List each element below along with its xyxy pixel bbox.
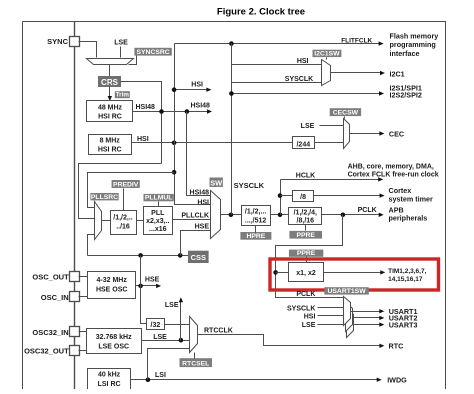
svg-text:HSI RC: HSI RC <box>98 147 122 154</box>
svg-text:USART3: USART3 <box>389 321 418 330</box>
svg-text:PLLCLK: PLLCLK <box>181 213 209 220</box>
svg-text:PLLMUL: PLLMUL <box>145 195 173 202</box>
svg-text:AHB, core, memory, DMA,: AHB, core, memory, DMA, <box>348 163 434 170</box>
svg-text:SYNCSRC: SYNCSRC <box>136 49 169 56</box>
svg-text:PCLK: PCLK <box>358 207 377 214</box>
svg-text:peripherals: peripherals <box>389 214 428 223</box>
svg-text:HSI48: HSI48 <box>190 190 210 197</box>
svg-text:HSE OSC: HSE OSC <box>96 287 128 294</box>
svg-text:/8,/16: /8,/16 <box>297 218 315 225</box>
svg-text:../16: ../16 <box>116 224 130 231</box>
svg-text:/1,/2,..: /1,/2,.. <box>113 215 133 222</box>
svg-text:CEC: CEC <box>389 130 404 139</box>
svg-text:HSI: HSI <box>137 136 149 143</box>
svg-text:/32: /32 <box>151 322 161 329</box>
svg-text:OSC_OUT: OSC_OUT <box>32 272 69 281</box>
svg-text:/1,/2,/4,: /1,/2,/4, <box>294 209 317 216</box>
svg-text:OSC32_IN: OSC32_IN <box>32 328 68 337</box>
svg-text:CSS: CSS <box>191 253 206 262</box>
svg-text:programming: programming <box>390 40 436 49</box>
svg-text:SYSCLK: SYSCLK <box>285 76 313 83</box>
svg-text:I2S2/SPI2: I2S2/SPI2 <box>390 90 422 99</box>
svg-text:LSI RC: LSI RC <box>98 381 121 388</box>
svg-text:HPRE: HPRE <box>246 233 265 240</box>
svg-text:interface: interface <box>390 49 420 58</box>
svg-text:RTCCLK: RTCCLK <box>204 328 233 335</box>
svg-text:Trim: Trim <box>116 92 130 99</box>
svg-text:HSI: HSI <box>297 58 309 65</box>
svg-text:14,15,16,17: 14,15,16,17 <box>388 276 423 283</box>
svg-text:HCLK: HCLK <box>296 172 315 179</box>
svg-text:48 MHz: 48 MHz <box>98 104 123 111</box>
svg-text:HSI: HSI <box>197 199 209 206</box>
svg-text:LSE: LSE <box>301 123 315 130</box>
svg-text:PPRE: PPRE <box>296 232 315 239</box>
svg-text:RTC: RTC <box>389 342 404 351</box>
svg-text:SYSCLK: SYSCLK <box>287 305 315 312</box>
svg-text:LSE: LSE <box>114 40 128 47</box>
svg-text:8 MHz: 8 MHz <box>100 137 121 144</box>
svg-text:SW: SW <box>210 178 222 187</box>
svg-text:HSI48: HSI48 <box>191 102 211 109</box>
svg-text:CECSW: CECSW <box>333 110 359 117</box>
svg-text:/8: /8 <box>300 194 306 201</box>
svg-text:LSE: LSE <box>165 302 179 309</box>
svg-text:SYNC: SYNC <box>47 37 68 46</box>
svg-text:40 kHz: 40 kHz <box>98 372 121 379</box>
svg-text:OSC_IN: OSC_IN <box>41 293 69 302</box>
svg-text:FLITFCLK: FLITFCLK <box>341 37 372 44</box>
svg-text:LSE: LSE <box>153 334 167 341</box>
svg-text:x2,x3,..: x2,x3,.. <box>146 218 169 225</box>
svg-text:...,/512: ...,/512 <box>245 217 267 224</box>
svg-text:PCLK: PCLK <box>296 291 315 298</box>
svg-text:PLLSRC: PLLSRC <box>91 194 118 201</box>
svg-text:HSI: HSI <box>304 314 316 321</box>
svg-text:/244: /244 <box>296 141 310 148</box>
svg-text:system timer: system timer <box>389 194 434 203</box>
svg-text:/1,/2,...: /1,/2,... <box>245 208 266 215</box>
svg-text:TIM1,2,3,6,7,: TIM1,2,3,6,7, <box>388 268 426 275</box>
svg-text:LSI: LSI <box>155 372 166 379</box>
svg-text:IWDG: IWDG <box>387 376 407 385</box>
svg-text:HSI RC: HSI RC <box>98 114 122 121</box>
svg-text:I2C1SW: I2C1SW <box>314 51 340 58</box>
svg-text:Flash memory: Flash memory <box>390 31 439 40</box>
svg-text:CRS: CRS <box>101 78 119 87</box>
svg-text:SYSCLK: SYSCLK <box>234 181 265 190</box>
svg-text:HSI48: HSI48 <box>136 104 156 111</box>
svg-text:x1, x2: x1, x2 <box>296 270 316 277</box>
svg-text:32.768 kHz: 32.768 kHz <box>96 334 132 341</box>
svg-text:PLL: PLL <box>151 210 165 217</box>
svg-text:PPRE: PPRE <box>297 250 316 257</box>
svg-text:RTCSEL: RTCSEL <box>182 361 209 368</box>
svg-text:4-32 MHz: 4-32 MHz <box>97 277 128 284</box>
svg-text:I2C1: I2C1 <box>390 69 405 78</box>
svg-text:PREDIV: PREDIV <box>113 181 139 188</box>
svg-text:HSI: HSI <box>191 82 203 89</box>
svg-text:HSE: HSE <box>195 223 210 230</box>
svg-text:Cortex FCLK free-run clock: Cortex FCLK free-run clock <box>348 171 439 178</box>
svg-text:Figure 2. Clock tree: Figure 2. Clock tree <box>217 6 305 17</box>
svg-text:LSE OSC: LSE OSC <box>98 343 129 350</box>
svg-text:LSE: LSE <box>302 322 316 329</box>
svg-text:...x16: ...x16 <box>149 226 167 233</box>
svg-text:OSC32_OUT: OSC32_OUT <box>24 347 69 356</box>
svg-text:HSE: HSE <box>145 277 160 284</box>
svg-text:USART1SW: USART1SW <box>327 288 366 295</box>
